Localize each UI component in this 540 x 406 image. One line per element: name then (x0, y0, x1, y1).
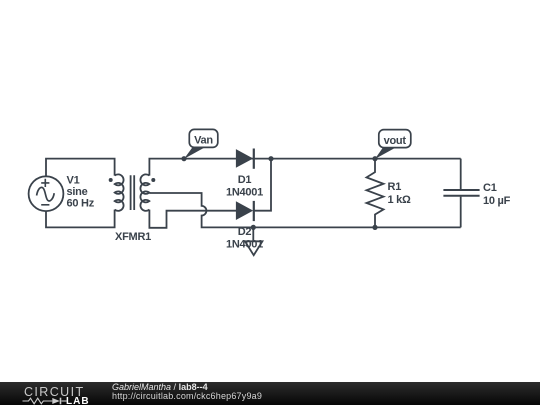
transformer XFMR1 primary winding (115, 174, 124, 210)
flag vout (375, 130, 411, 159)
transformer phase dot secondary (151, 178, 155, 182)
node dot ground junction (251, 225, 256, 230)
svg-text:1 kΩ: 1 kΩ (388, 194, 412, 206)
svg-text:V1: V1 (67, 174, 80, 186)
wire center tap with hop over D2 wire (149, 193, 460, 227)
transformer XFMR1 secondary winding (140, 174, 149, 211)
svg-text:60 Hz: 60 Hz (67, 197, 95, 209)
wire secondary top to node Van and top rail (149, 159, 460, 176)
node dot vout (372, 156, 377, 161)
svg-text:sine: sine (67, 186, 88, 198)
capacitor C1 plates (443, 190, 479, 196)
node dot R1 bottom (372, 225, 377, 230)
footer bar (0, 382, 540, 406)
wire C1 bottom (460, 197, 462, 228)
resistor R1 (367, 159, 384, 228)
diode D2 (237, 201, 254, 221)
node dot D1-D2 junction (268, 156, 273, 161)
wire V1 top to transformer primary (46, 159, 115, 177)
wire secondary bottom to D2 anode (149, 210, 236, 228)
voltage source V1 (29, 176, 64, 211)
flag Van (184, 129, 218, 159)
svg-text:D1: D1 (238, 174, 252, 186)
transformer phase dot primary (109, 178, 113, 182)
svg-text:XFMR1: XFMR1 (115, 231, 151, 243)
diode D1 (237, 149, 254, 169)
wire V1 bottom to transformer primary (46, 210, 115, 228)
svg-text:LAB: LAB (66, 396, 90, 406)
CircuitLab logo (0, 382, 100, 406)
wire C1 top (460, 159, 462, 190)
svg-text:C1: C1 (483, 182, 497, 194)
wire D2 cathode up to top rail (254, 159, 271, 211)
svg-text:1N4001: 1N4001 (226, 186, 263, 198)
svg-text:1N4001: 1N4001 (226, 238, 263, 250)
svg-text:Van: Van (194, 134, 213, 146)
footer credits (112, 383, 262, 401)
ground (245, 227, 262, 255)
svg-text:R1: R1 (388, 181, 402, 193)
svg-text:10 µF: 10 µF (483, 195, 511, 207)
svg-text:vout: vout (384, 135, 407, 147)
transformer XFMR1 core (131, 175, 135, 210)
node dot Van (181, 156, 186, 161)
svg-text:D2: D2 (238, 226, 252, 238)
